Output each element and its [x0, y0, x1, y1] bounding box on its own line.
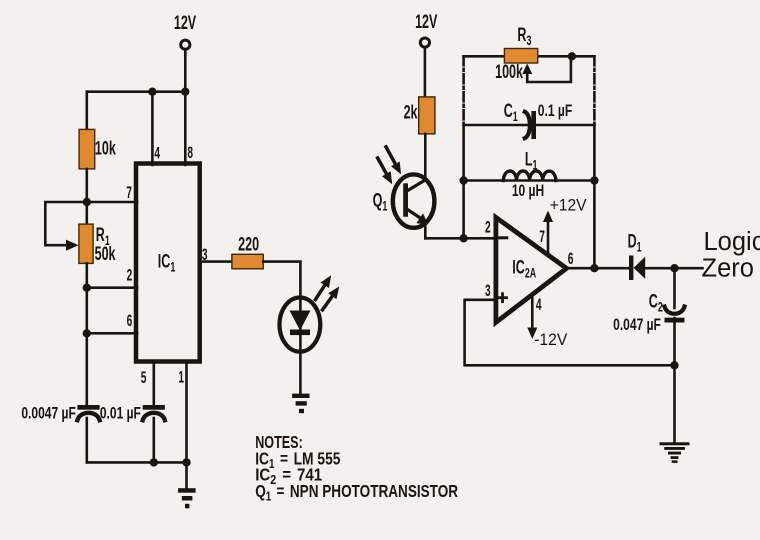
Q1 emitter line — [406, 209, 421, 219]
node dot pin6 — [83, 329, 91, 337]
svg-text:7: 7 — [126, 182, 132, 201]
wire pin3 to ground rail — [465, 300, 675, 366]
svg-text:0.1 µF: 0.1 µF — [538, 102, 573, 120]
potentiometer R3 — [504, 49, 537, 64]
node dot L1 right — [590, 176, 598, 184]
svg-text:8: 8 — [187, 142, 193, 161]
svg-text:50k: 50k — [95, 243, 116, 264]
wire rail R1 down to cap — [86, 263, 89, 406]
wire rail 10k to R1 — [86, 169, 89, 225]
wire L1 branch — [464, 179, 595, 182]
ground under C2 — [660, 442, 690, 463]
wire pin 2 — [87, 286, 137, 289]
light arrowhead outer — [391, 162, 401, 175]
wire pin 5 — [153, 362, 156, 407]
op IC1 555 timer box — [136, 164, 200, 362]
wire pin 7 — [87, 201, 137, 204]
transistor Q1 circle — [393, 174, 435, 227]
wire top horizontal rail — [87, 90, 186, 93]
node dot ground rail — [670, 361, 678, 369]
svg-text:220: 220 — [238, 234, 259, 255]
resistor 10k — [79, 129, 95, 169]
node dot R3 wiper tie — [568, 52, 576, 60]
wire left rail top — [86, 92, 89, 130]
resistor 2k — [419, 97, 435, 134]
svg-text:4: 4 — [154, 143, 160, 162]
svg-text:10k: 10k — [95, 138, 116, 159]
Q1 base bar — [403, 183, 408, 216]
capacitor C1 curved plate — [525, 112, 530, 138]
svg-text:0.047 µF: 0.047 µF — [613, 316, 661, 334]
svg-text:3: 3 — [485, 280, 491, 299]
wire left feedback vertical solid — [462, 125, 465, 238]
capacitor 0.01uF curved plate — [143, 413, 165, 420]
pin 4 arrowhead — [527, 328, 537, 340]
node dot input junction — [459, 234, 467, 242]
wiper arrowhead into R1 — [66, 240, 79, 251]
capacitor 0.01uF top plate — [143, 405, 165, 410]
LED triangle — [290, 311, 311, 331]
pin 4 supply arrow — [531, 295, 534, 333]
svg-text:2: 2 — [127, 265, 133, 284]
svg-text:2k: 2k — [404, 102, 418, 123]
svg-text:Logic: Logic — [704, 228, 760, 256]
LED cathode bar — [290, 330, 310, 336]
wire cap1 to bottom rail — [86, 418, 89, 462]
svg-text:12V: 12V — [415, 12, 438, 33]
12V terminal circle (right) — [420, 38, 429, 47]
node dot pin7 — [83, 198, 91, 206]
light arrow inner into Q1 — [378, 158, 387, 174]
svg-text:0.0047 µF: 0.0047 µF — [21, 405, 76, 423]
LED arrowhead lower — [328, 286, 339, 299]
node dot pin1 bottom — [182, 458, 190, 466]
svg-text:10 µH: 10 µH — [512, 182, 544, 200]
wire pin 4 — [151, 92, 154, 165]
capacitor C2 straight plate — [665, 318, 685, 323]
wire Q1 emitter down — [424, 222, 427, 238]
wire LED to ground — [299, 352, 302, 394]
ground under LED — [292, 394, 309, 414]
wire left feedback vertical dashed (phantom) — [462, 56, 465, 125]
capacitor C1 straight plate — [531, 111, 536, 139]
wire pin 1 — [185, 362, 188, 463]
diode D1 triangle — [634, 257, 646, 279]
svg-text:Zero: Zero — [702, 254, 754, 282]
12V terminal circle (left) — [181, 40, 190, 49]
node dot cap2 bottom — [150, 458, 158, 466]
resistor 220 — [232, 254, 263, 268]
wire 2k down to Q1 collector — [424, 134, 427, 180]
svg-text:5: 5 — [141, 367, 147, 386]
wire down to C2 — [673, 268, 676, 308]
svg-text:1: 1 — [178, 367, 184, 386]
svg-text:2: 2 — [485, 217, 491, 236]
wire 220 to LED — [263, 262, 300, 299]
wire C2 to ground — [673, 318, 676, 443]
svg-text:7: 7 — [539, 226, 545, 245]
R3 wiper arm — [527, 56, 571, 82]
wire pin 3 output — [200, 260, 233, 263]
capacitor 0.0047uF curved plate — [77, 413, 99, 420]
svg-text:100k: 100k — [495, 61, 523, 82]
svg-text:Q1 = NPN PHOTOTRANSISTOR: Q1 = NPN PHOTOTRANSISTOR — [255, 482, 458, 503]
wire through LED — [299, 299, 302, 351]
wire pin 8 — [184, 92, 187, 165]
wire C1 branch — [464, 124, 595, 127]
wire D1 to output — [645, 267, 703, 270]
LED light arrow lower — [323, 296, 333, 310]
wire pin 6 — [87, 332, 137, 335]
pin 7 arrowhead — [543, 211, 553, 223]
wire right feedback vertical solid — [593, 125, 596, 268]
wire 12V terminal down to top rail — [184, 50, 187, 92]
diode D1 cathode bar — [629, 256, 633, 281]
Q1 emitter arrowhead — [417, 213, 429, 224]
wire bottom rail — [87, 461, 187, 464]
op-amp IC2A triangle — [496, 217, 567, 322]
wire R3 branch — [464, 55, 595, 58]
minus sign pin2 — [499, 236, 507, 239]
capacitor 0.0047uF top plate — [77, 405, 99, 410]
svg-text:6: 6 — [127, 310, 133, 329]
wire stub to ground — [185, 462, 188, 488]
inductor L1 coil — [503, 171, 555, 181]
node dot pin2 — [83, 284, 91, 292]
node junction dot pin8 top — [181, 88, 189, 96]
svg-text:-12V: -12V — [534, 330, 567, 348]
wire cap2 to bottom rail — [153, 418, 156, 462]
node dot C2 top — [670, 264, 678, 272]
svg-text:6: 6 — [568, 248, 574, 267]
Q1 collector line — [406, 180, 425, 192]
node junction dot pin4 top — [148, 88, 156, 96]
svg-text:12V: 12V — [174, 13, 197, 34]
svg-text:+12V: +12V — [550, 196, 587, 214]
ground under pin 1 — [178, 488, 196, 508]
node dot output feedback — [590, 264, 598, 272]
svg-text:0.01 µF: 0.01 µF — [100, 405, 141, 423]
svg-text:4: 4 — [536, 294, 542, 313]
plus sign pin3 — [499, 294, 507, 302]
wire 12V down to 2k — [424, 48, 427, 98]
svg-text:3: 3 — [202, 244, 208, 263]
wire wiper loop of R1 — [45, 202, 87, 245]
LED light arrow upper — [315, 285, 324, 299]
node dot L1 left — [459, 176, 467, 184]
wire op-amp output — [567, 267, 630, 270]
wire emitter to op-amp pin2 — [425, 237, 496, 240]
R3 wiper arrowhead — [522, 64, 532, 75]
potentiometer R1 — [79, 224, 93, 263]
light arrow outer into Q1 — [386, 147, 395, 164]
LED arrowhead upper — [321, 275, 332, 288]
wire right feedback vertical dashed (phantom) — [593, 56, 596, 125]
light arrowhead inner — [382, 171, 392, 184]
pin 7 supply arrow — [547, 218, 550, 256]
capacitor C2 curved plate — [665, 307, 685, 314]
LED circle — [280, 298, 321, 352]
